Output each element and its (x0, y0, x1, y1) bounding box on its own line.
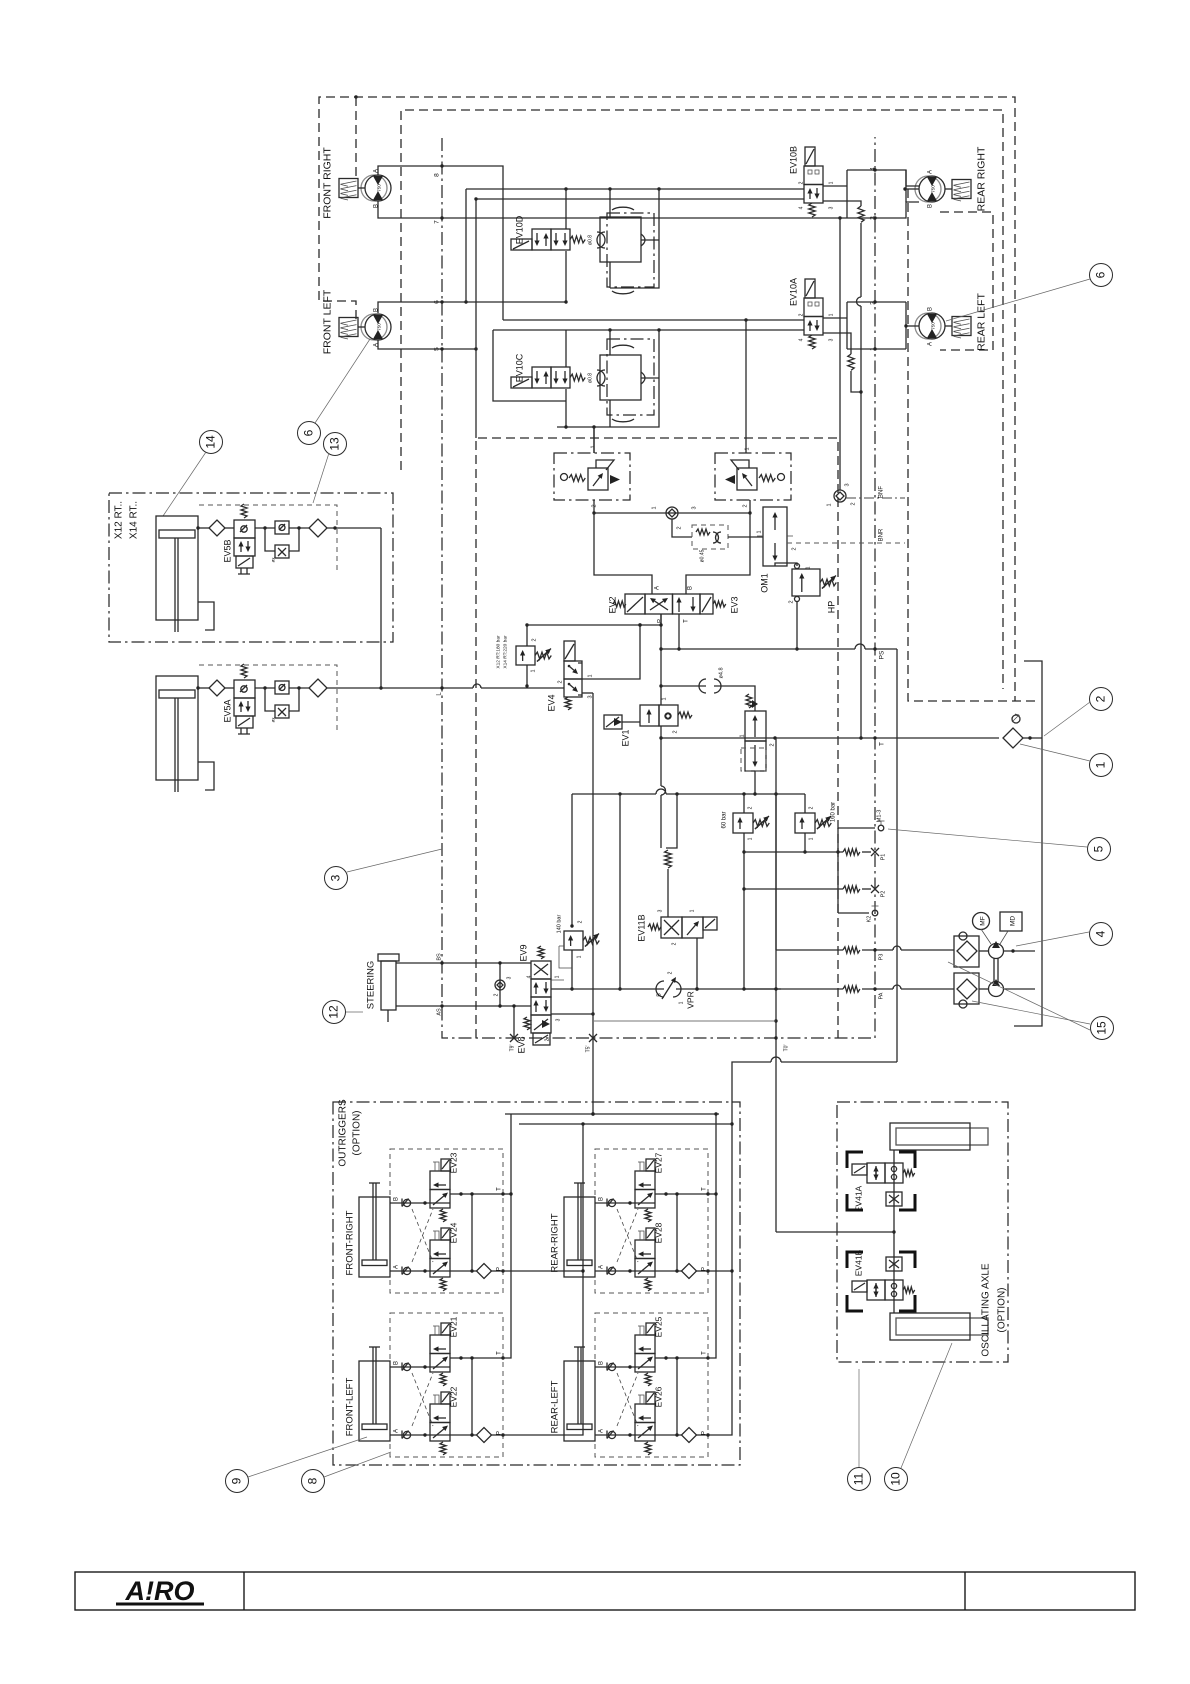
svg-text:P3: P3 (879, 954, 885, 961)
outrigger P drops left (503, 1124, 583, 1435)
svg-text:BNF: BNF (879, 486, 885, 498)
svg-text:B: B (928, 204, 934, 208)
leader 2 (1044, 702, 1090, 736)
callout 6 left (298, 422, 321, 445)
svg-text:EV5A: EV5A (223, 699, 233, 722)
svg-text:4: 4 (799, 206, 805, 209)
svg-text:3: 3 (658, 909, 664, 912)
svg-text:11: 11 (852, 1472, 866, 1485)
relief 160bar (795, 813, 815, 833)
svg-text:1: 1 (662, 697, 668, 700)
svg-text:T: T (497, 1187, 503, 1191)
svg-text:1: 1 (809, 837, 815, 840)
gauge MF (973, 913, 990, 930)
svg-text:6: 6 (302, 429, 316, 436)
svg-text:1: 1 (827, 503, 833, 506)
relief 140bar (564, 931, 583, 950)
valve EV5B (234, 520, 255, 538)
orifice diamond EV5B (196, 526, 199, 529)
svg-text:1: 1 (531, 669, 537, 672)
svg-text:MF: MF (980, 916, 987, 925)
svg-text:T: T (497, 1351, 503, 1355)
svg-text:A: A (928, 342, 934, 346)
pump P3 (989, 944, 1004, 959)
brake cylinder C (607, 339, 654, 415)
svg-text:1: 1 (1094, 761, 1108, 768)
svg-text:3: 3 (845, 483, 851, 486)
right main vertical (896, 649, 898, 1062)
wire AS (396, 1005, 531, 1007)
EV2 P T stubs (660, 614, 662, 625)
cylinder X12 top (156, 516, 198, 620)
svg-text:X12 RT..: X12 RT.. (114, 501, 125, 539)
svg-text:A: A (599, 1265, 605, 1269)
T5 drop (592, 693, 594, 1114)
outrigger group FRONT-RIGHT (390, 1149, 503, 1293)
wire BS (396, 962, 531, 964)
return line 861 (860, 223, 862, 297)
main pressure vertical (660, 614, 662, 705)
svg-text:EV8: EV8 (517, 1036, 527, 1053)
svg-text:1: 1 (806, 566, 812, 569)
svg-text:2: 2 (673, 730, 679, 733)
svg-text:8: 8 (306, 1477, 320, 1484)
svg-text:B: B (394, 1361, 400, 1365)
osc cylinder bottom (890, 1313, 970, 1340)
outriggers dash-dot box (333, 1102, 740, 1465)
bus 199 (476, 198, 804, 200)
L bus (481, 687, 564, 689)
svg-text:EV5B: EV5B (223, 539, 233, 562)
svg-text:T: T (684, 619, 690, 623)
wheel motor FRONT RIGHT (365, 175, 391, 201)
svg-text:P: P (497, 1267, 503, 1271)
T filter (1012, 715, 1020, 723)
svg-text:PS: PS (879, 650, 886, 659)
callout 8 (302, 1470, 325, 1493)
svg-text:(OPTION): (OPTION) (352, 1111, 363, 1156)
leader 14 (163, 452, 206, 516)
wire PA (744, 988, 843, 990)
svg-text:X14 RT..: X14 RT.. (129, 501, 140, 539)
valve EV8 (531, 997, 551, 1015)
svg-text:L: L (437, 692, 443, 696)
valve block EV41A corners (847, 1152, 863, 1168)
svg-text:1: 1 (829, 181, 835, 184)
EV4 port3 wire (582, 692, 593, 694)
valve EV5A (234, 680, 255, 698)
svg-text:1: 1 (652, 506, 658, 509)
svg-text:4: 4 (1094, 930, 1108, 937)
svg-text:REAR RIGHT: REAR RIGHT (976, 146, 988, 211)
osc feed wire (776, 1231, 894, 1233)
brake reducing valve assembly left (554, 453, 630, 500)
L bus to pilot valve (661, 685, 706, 687)
svg-text:EV9: EV9 (519, 944, 529, 961)
svg-text:FRONT RIGHT: FRONT RIGHT (322, 147, 334, 219)
svg-text:750: 750 (931, 185, 936, 193)
svg-text:12: 12 (327, 1005, 341, 1019)
svg-text:T9': T9' (510, 1045, 516, 1052)
svg-text:A: A (599, 1429, 605, 1433)
svg-text:HP: HP (827, 601, 837, 614)
leader 5 (888, 829, 1087, 847)
orifice diamond EV5A (196, 686, 199, 689)
EV8 out wire (551, 1013, 593, 1015)
svg-text:1: 1 (690, 909, 696, 912)
svg-text:10: 10 (889, 1472, 903, 1486)
svg-text:2: 2 (799, 181, 805, 184)
EV1 tank stub (660, 726, 662, 738)
relief HP (792, 569, 820, 596)
svg-text:3: 3 (829, 338, 835, 341)
gauge MD (1000, 912, 1022, 931)
svg-text:EV22: EV22 (449, 1386, 459, 1407)
valve EV10C (532, 367, 551, 388)
pilot 2pos valve (746, 694, 752, 708)
svg-text:13: 13 (328, 437, 342, 451)
leader 6 left (315, 339, 370, 423)
T0 drop (775, 738, 777, 1232)
svg-text:FRONT-RIGHT: FRONT-RIGHT (345, 1210, 356, 1275)
svg-text:REAR-RIGHT: REAR-RIGHT (550, 1213, 561, 1272)
outrigger P drops right (708, 1126, 732, 1435)
svg-text:EV25: EV25 (654, 1316, 664, 1337)
check loop EV5B (255, 527, 275, 529)
outer dashed enclosure box1 (319, 97, 1015, 701)
svg-text:B: B (599, 1197, 605, 1201)
valve EV10D (532, 229, 551, 250)
filter P3 (954, 936, 979, 967)
leader 10 (901, 1343, 952, 1468)
machine boundary dash-dot box (442, 137, 875, 1038)
wire 5 front-left A (378, 340, 476, 349)
svg-text:A: A (394, 1265, 400, 1269)
svg-text:15: 15 (1095, 1021, 1109, 1035)
assembly port1 risers (593, 427, 595, 453)
dashed partition right (908, 189, 1037, 701)
svg-text:K2: K2 (867, 916, 873, 923)
svg-text:T: T (879, 742, 886, 746)
leader 9 (248, 1437, 367, 1477)
svg-text:EV4: EV4 (547, 694, 557, 711)
valve EV1 (604, 715, 622, 729)
VPR orifice (551, 988, 664, 990)
svg-text:8: 8 (434, 173, 441, 177)
pump link (994, 958, 998, 982)
filter PA (954, 973, 979, 1004)
svg-text:2: 2 (789, 600, 795, 603)
line 330 (493, 329, 804, 331)
svg-text:P: P (702, 1267, 708, 1271)
svg-text:EV10B: EV10B (789, 146, 799, 174)
leader 8 (324, 1452, 391, 1477)
shuttle valve (666, 507, 678, 519)
svg-text:P: P (497, 1431, 503, 1435)
L bus continue (563, 685, 565, 687)
callout 3 (325, 867, 348, 890)
svg-text:4: 4 (799, 338, 805, 341)
valve EV2 EV3 (645, 594, 673, 614)
svg-text:3: 3 (507, 976, 513, 979)
wire relief to P (527, 624, 661, 626)
svg-text:EV11B: EV11B (637, 914, 647, 941)
svg-text:A!RO: A!RO (125, 1576, 195, 1606)
svg-text:1: 1 (829, 313, 835, 316)
svg-text:FRONT-LEFT: FRONT-LEFT (345, 1378, 356, 1437)
svg-text:1: 1 (748, 837, 754, 840)
port M1-3 (878, 825, 884, 831)
rear wheels dashed box (940, 212, 993, 350)
svg-text:750: 750 (931, 322, 936, 330)
oscillating axle dash-dot box (837, 1102, 1008, 1362)
bus 189 (466, 188, 804, 190)
svg-text:FRONT LEFT: FRONT LEFT (322, 289, 334, 354)
orifice 0.8 D (597, 232, 605, 248)
wire P1 (744, 851, 843, 853)
relief 60bar (733, 813, 753, 833)
EV10B wires (823, 185, 847, 187)
osc center wire (893, 1150, 895, 1313)
svg-text:5: 5 (1092, 845, 1106, 852)
inner dashed box EV5B (199, 505, 337, 573)
EV5B to EV5A link (380, 528, 382, 688)
pilot bus 794 (572, 793, 656, 795)
svg-text:14: 14 (204, 435, 218, 449)
pump PA (989, 982, 1004, 997)
svg-text:750: 750 (377, 323, 382, 331)
EV4 port1 wire (582, 625, 640, 679)
rear right motor wires (905, 188, 919, 190)
EV10A wires (823, 317, 847, 319)
svg-text:2: 2 (743, 504, 749, 507)
feed corner (730, 1122, 733, 1125)
svg-text:OM1: OM1 (760, 573, 770, 593)
svg-text:P: P (702, 1431, 708, 1435)
shuttle bus (594, 500, 750, 513)
svg-text:2: 2 (770, 743, 776, 746)
svg-text:9: 9 (230, 1477, 244, 1484)
wire P3 (776, 949, 843, 951)
X12 X14 dash-dot box (109, 493, 393, 642)
outrigger P bus (519, 1123, 732, 1125)
svg-text:2: 2 (578, 920, 584, 923)
rear left motor wires (906, 325, 919, 327)
EV11B drop (696, 938, 698, 989)
callout 4 (1090, 923, 1113, 946)
svg-text:EV26: EV26 (654, 1386, 664, 1407)
orifice 0.45 (672, 519, 692, 537)
svg-text:EV1: EV1 (621, 729, 631, 746)
wire PS (661, 648, 855, 650)
svg-text:T0': T0' (784, 1045, 790, 1052)
svg-text:A: A (394, 1429, 400, 1433)
callout 14 (200, 431, 223, 454)
brake cylinder D (607, 213, 654, 287)
svg-text:B: B (394, 1197, 400, 1201)
svg-text:REAR LEFT: REAR LEFT (976, 293, 988, 351)
callout 1 (1090, 754, 1113, 777)
svg-text:2: 2 (545, 1038, 551, 1041)
svg-text:øx: øx (271, 717, 276, 723)
svg-text:PA: PA (879, 992, 885, 999)
svg-text:4: 4 (527, 975, 533, 978)
svg-text:750: 750 (377, 184, 382, 192)
orifice 0.8 C (597, 370, 605, 386)
inner dashed enclosure box2 (401, 110, 1003, 689)
leader to rear left motor (946, 279, 1090, 321)
EV8 T9 wire (513, 1006, 515, 1038)
svg-text:B: B (928, 307, 934, 311)
filter diamond EV5B (309, 519, 327, 537)
wires to EV2 EV3 (594, 513, 652, 594)
orifice 4.8 (699, 679, 706, 693)
svg-text:X12 RT:180 bar: X12 RT:180 bar (496, 635, 502, 669)
steering check valve (499, 963, 501, 1006)
inner dashed box EV5A (199, 665, 337, 733)
svg-text:EV27: EV27 (654, 1152, 664, 1173)
wire 7 front-right B (378, 201, 919, 218)
valve EV11B (661, 917, 682, 938)
outrigger group REAR-LEFT (595, 1313, 708, 1457)
svg-text:STEERING: STEERING (366, 961, 377, 1010)
leader 12 (346, 1011, 363, 1013)
outrigger T bus (505, 1113, 719, 1115)
gray link (594, 1020, 776, 1022)
EV9 supply drop (619, 794, 621, 989)
filter diamond EV5A (309, 679, 327, 697)
svg-text:OUTRIGGERS: OUTRIGGERS (338, 1099, 349, 1167)
svg-text:2: 2 (799, 313, 805, 316)
valve EV41A (867, 1163, 885, 1183)
svg-text:EV3: EV3 (730, 596, 740, 613)
pilot valve drop (754, 771, 756, 794)
valve EV10B (805, 147, 815, 166)
svg-text:(OPTION): (OPTION) (997, 1288, 1008, 1333)
spring line steering (666, 794, 677, 848)
svg-text:6: 6 (1094, 271, 1108, 278)
callout 12 (323, 1001, 346, 1024)
svg-text:ø0.45: ø0.45 (700, 549, 706, 562)
wheel motor REAR RIGHT (919, 176, 945, 202)
EV10D wires (565, 189, 567, 229)
wire P2 (744, 888, 843, 890)
svg-text:EV21: EV21 (449, 1316, 459, 1337)
wire T (661, 737, 999, 739)
svg-text:1: 1 (588, 674, 594, 677)
svg-text:BNR: BNR (879, 528, 885, 541)
wire 8 front-right A (378, 166, 503, 320)
svg-text:EV10D: EV10D (515, 215, 525, 244)
leader 13 (313, 453, 329, 503)
svg-text:EV10C: EV10C (515, 353, 525, 382)
leader 1 (1020, 744, 1090, 761)
osc cylinder top (890, 1123, 970, 1150)
valve block EV41B corners (847, 1252, 863, 1268)
svg-text:2: 2 (809, 806, 815, 809)
svg-text:EV24: EV24 (449, 1222, 459, 1243)
svg-text:EV28: EV28 (654, 1222, 664, 1243)
wheel motor FRONT LEFT (365, 314, 391, 340)
svg-text:1: 1 (740, 734, 746, 737)
svg-text:2: 2 (1094, 695, 1108, 702)
valve EV41B (867, 1280, 885, 1300)
wire M1-3 (838, 827, 875, 829)
svg-text:1: 1 (555, 975, 561, 978)
svg-text:2: 2 (792, 547, 798, 550)
svg-text:2: 2 (677, 526, 683, 529)
svg-text:T5': T5' (586, 1046, 592, 1053)
callout 15 (1091, 1017, 1114, 1040)
wheel motor REAR LEFT (919, 313, 945, 339)
outrigger T drops right (708, 1114, 716, 1358)
svg-text:1: 1 (757, 530, 763, 533)
svg-text:P1: P1 (881, 854, 887, 861)
valve EV10A (805, 279, 815, 298)
outrigger group REAR-RIGHT (595, 1149, 708, 1293)
svg-text:EV2: EV2 (608, 596, 618, 613)
leader 15 (972, 1001, 1090, 1024)
svg-text:ø4.8: ø4.8 (719, 667, 725, 678)
svg-text:M1-3: M1-3 (877, 810, 883, 823)
valve EV9 (531, 961, 551, 979)
check loop EV5A (255, 687, 275, 689)
wire K2 (838, 912, 869, 914)
svg-text:2: 2 (668, 971, 674, 974)
rear brake pilot line (839, 218, 841, 490)
callout 10 (885, 1468, 908, 1491)
outrigger T drops left (503, 1114, 511, 1358)
svg-text:A: A (655, 586, 661, 590)
svg-text:3: 3 (829, 206, 835, 209)
svg-text:EV41A: EV41A (854, 1185, 864, 1212)
svg-text:140 bar: 140 bar (557, 915, 563, 934)
relief X12RT (516, 646, 535, 665)
svg-text:OSCILLATING AXLE: OSCILLATING AXLE (981, 1263, 992, 1357)
valve EV4 (564, 641, 575, 661)
svg-text:EV41B: EV41B (854, 1249, 864, 1276)
svg-text:3: 3 (749, 704, 755, 707)
callout 5 (1088, 838, 1111, 861)
svg-text:2: 2 (851, 502, 857, 505)
svg-text:T: T (702, 1187, 708, 1191)
svg-text:øx: øx (271, 557, 276, 563)
svg-text:3: 3 (329, 874, 343, 881)
callout 9 (226, 1470, 249, 1493)
EV9 port wire (551, 979, 564, 981)
svg-text:2: 2 (672, 942, 678, 945)
title block frame (75, 1572, 1135, 1610)
svg-text:1: 1 (679, 1001, 685, 1004)
callout 13 (324, 433, 347, 456)
svg-text:P2: P2 (881, 891, 887, 898)
svg-text:3: 3 (556, 1018, 562, 1021)
brake reducing valve assembly right (715, 453, 791, 500)
svg-text:ø0.8: ø0.8 (588, 235, 594, 245)
line BNR (787, 542, 905, 544)
svg-text:ø0.8: ø0.8 (588, 373, 594, 383)
svg-text:7: 7 (434, 220, 441, 224)
P3 vertical (775, 794, 777, 950)
svg-text:3: 3 (692, 506, 698, 509)
outrigger group FRONT-LEFT (390, 1313, 503, 1457)
callout 6 right (1090, 264, 1113, 287)
callout 2 (1090, 688, 1113, 711)
callout 11 (848, 1468, 871, 1491)
svg-text:REAR-LEFT: REAR-LEFT (550, 1380, 561, 1433)
svg-text:B: B (688, 586, 694, 590)
140bar feed (571, 794, 573, 926)
